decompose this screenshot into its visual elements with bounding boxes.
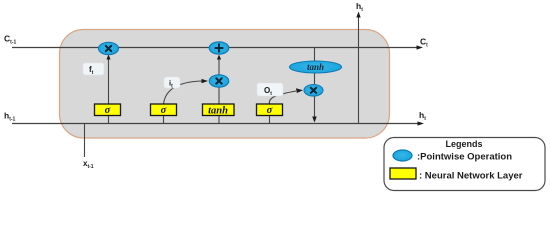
neural layer sigma2 — [151, 104, 177, 116]
node f_t label — [83, 63, 104, 76]
LSTM cell body — [60, 30, 390, 139]
svg-text:Legends: Legends — [445, 139, 482, 149]
svg-text:tanh: tanh — [208, 106, 228, 117]
legend neural layer symbol — [390, 168, 416, 179]
wire h_t top branch — [356, 12, 360, 124]
wire sigma1 to multiply f — [106, 55, 110, 105]
svg-text:σ: σ — [105, 105, 111, 116]
legend pointwise text — [417, 152, 512, 163]
node C_t-1 label — [4, 34, 16, 46]
pointwise multiply input-gate — [209, 75, 229, 87]
neural layer sigma3 — [257, 104, 283, 116]
wire sigma3 curve to multiply o — [269, 88, 303, 104]
wire sigma1 to h line — [108, 116, 110, 124]
wire cell-state line C — [12, 45, 423, 49]
svg-text::Pointwise Operation: :Pointwise Operation — [417, 152, 512, 163]
node h_t-1 label — [4, 111, 16, 123]
node h_t right label — [419, 110, 426, 122]
legend title — [445, 139, 482, 149]
pointwise multiply forget-gate — [99, 42, 119, 54]
wire sigma3 to h line — [269, 116, 271, 124]
svg-text:σ: σ — [267, 105, 273, 116]
legend pointwise symbol — [393, 150, 412, 161]
wire tanh layer to h line — [218, 116, 220, 124]
wire multiply i to add — [217, 55, 221, 76]
wire hidden-state line h — [12, 121, 424, 125]
wire cell state down through tanh — [314, 47, 316, 84]
neural layer sigma1 — [95, 104, 121, 116]
svg-text:σ: σ — [161, 105, 167, 116]
node i_t label — [164, 77, 180, 89]
pointwise multiply output-gate — [304, 85, 323, 97]
pointwise tanh ellipse — [290, 61, 342, 73]
node o_t label — [257, 83, 283, 97]
wire tanh layer to multiply i — [218, 87, 220, 104]
wire multiply o to h line — [312, 96, 317, 123]
node h_t top label — [356, 1, 363, 13]
node x_t-1 label — [83, 159, 94, 170]
neural layer tanh — [203, 104, 235, 117]
wire sigma2 curve to multiply i — [164, 79, 209, 104]
svg-text:: Neural Network Layer: : Neural Network Layer — [419, 171, 523, 182]
wire sigma2 to h line — [163, 116, 165, 124]
svg-text:tanh: tanh — [307, 62, 324, 72]
legend box — [384, 138, 545, 191]
node C_t label — [420, 37, 428, 49]
pointwise add — [209, 42, 229, 54]
wire x_t-1 input branch — [84, 123, 86, 157]
legend neural layer text — [419, 171, 523, 182]
